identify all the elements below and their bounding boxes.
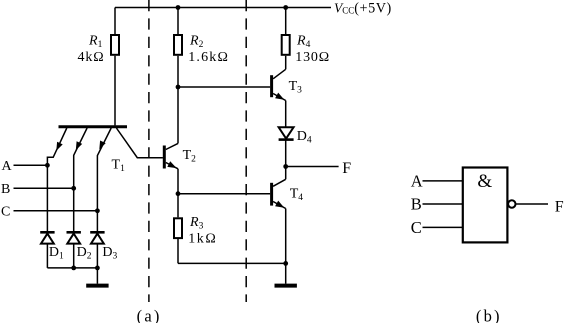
svg-text:D4: D4: [297, 129, 312, 146]
svg-text:&: &: [477, 171, 492, 192]
svg-text:130Ω: 130Ω: [295, 50, 330, 65]
ground right: [275, 263, 297, 285]
node D3 junction: [95, 266, 100, 271]
wire T4 collector to F node: [285, 167, 287, 180]
node C junction: [95, 208, 100, 213]
node T2 emitter junction: [176, 191, 181, 196]
diode D1: [40, 165, 64, 268]
resistor R2: [174, 8, 229, 88]
svg-text:4kΩ: 4kΩ: [78, 50, 105, 65]
wire gate input C: [423, 226, 463, 228]
svg-text:C: C: [411, 218, 422, 237]
dashed partition line right: [245, 0, 247, 302]
transistor T2: [164, 143, 196, 168]
svg-text:R2: R2: [189, 34, 204, 51]
svg-text:R1: R1: [88, 34, 103, 51]
wire T2 emitter down: [177, 169, 179, 194]
node B junction: [71, 186, 76, 191]
svg-text:F: F: [342, 160, 351, 177]
svg-text:1kΩ: 1kΩ: [188, 232, 217, 247]
wire T3 base: [178, 86, 270, 88]
wire T3 emitter to D4: [285, 101, 287, 128]
svg-text:T3: T3: [289, 79, 303, 96]
diode D3: [90, 211, 117, 268]
wire gate input A: [423, 180, 463, 182]
svg-text:B: B: [411, 195, 422, 214]
transistor T1 (multi-emitter): [47, 127, 127, 211]
node rail-R2 junction: [176, 5, 181, 10]
node output F junction: [283, 164, 288, 169]
svg-text:B: B: [1, 182, 10, 197]
svg-text:(a): (a): [137, 307, 162, 323]
node T4 emitter-R3-ground junction: [283, 261, 288, 266]
wire R3 to T4 emitter: [178, 262, 286, 264]
svg-text:F: F: [555, 199, 564, 216]
svg-text:D3: D3: [102, 245, 117, 262]
resistor R3: [174, 194, 217, 264]
svg-text:(b): (b): [476, 307, 502, 323]
svg-text:R3: R3: [189, 215, 204, 232]
svg-text:T4: T4: [290, 186, 304, 203]
wire T1 collector to T2 base: [116, 128, 162, 158]
wire T4 emitter down: [285, 209, 287, 264]
gate U1 AND-NOT body: [463, 168, 508, 243]
svg-text:1.6kΩ: 1.6kΩ: [188, 50, 229, 65]
wire diode commons: [47, 267, 97, 269]
resistor R4: [282, 8, 330, 70]
dashed partition line left: [148, 0, 150, 302]
node R2-T3 base junction: [176, 85, 181, 90]
wire T4 base: [178, 193, 270, 195]
diode D2: [67, 188, 92, 268]
wire gate input B: [423, 203, 463, 205]
bubble inversion circle: [508, 200, 515, 207]
wire input A: [14, 164, 48, 166]
ground left: [86, 268, 108, 286]
svg-text:C: C: [1, 205, 10, 220]
wire T2 collector to R2: [177, 87, 179, 143]
svg-text:D1: D1: [49, 245, 64, 262]
svg-text:A: A: [2, 159, 13, 174]
node A junction: [45, 163, 50, 168]
transistor T4: [272, 179, 304, 208]
svg-text:R4: R4: [296, 34, 311, 51]
svg-text:A: A: [411, 172, 423, 191]
diode D4: [279, 127, 312, 166]
svg-text:VCC(+5V): VCC(+5V): [334, 1, 392, 17]
wire output F: [286, 166, 339, 168]
wire gate output: [516, 203, 549, 205]
svg-text:T2: T2: [183, 148, 197, 165]
wire input B: [14, 187, 74, 189]
node D2 junction: [71, 266, 76, 271]
wire input C: [14, 210, 98, 212]
svg-text:T1: T1: [112, 158, 126, 175]
svg-text:D2: D2: [77, 245, 92, 262]
transistor T3: [272, 69, 303, 100]
node rail-R4 junction: [283, 5, 288, 10]
wire VCC top rail: [115, 7, 331, 9]
resistor R1: [78, 8, 120, 126]
